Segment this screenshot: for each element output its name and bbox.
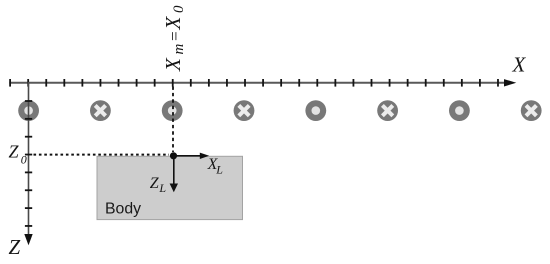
svg-text:L: L [158,181,166,195]
svg-text:X: X [161,16,185,31]
svg-text:Z: Z [9,235,21,259]
svg-text:X: X [512,53,527,77]
svg-text:m: m [171,44,187,55]
svg-text:Z: Z [9,142,20,162]
svg-text:0: 0 [171,5,187,13]
svg-text:Z: Z [150,175,160,192]
svg-text:X: X [161,57,185,72]
svg-text:=: = [165,31,184,42]
svg-text:Body: Body [105,200,141,217]
svg-text:L: L [215,163,223,177]
svg-text:0: 0 [21,153,27,167]
